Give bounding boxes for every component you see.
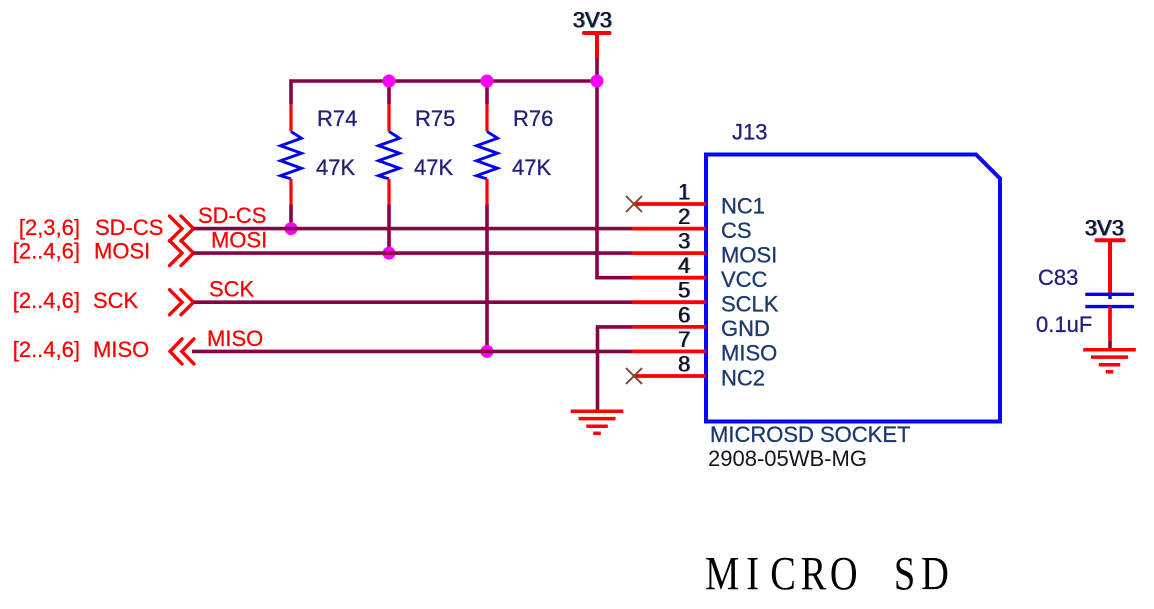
pin 5 number — [678, 278, 691, 303]
wire: R75 bottom to MOSI net — [387, 205, 391, 254]
pin 3 stub — [632, 251, 706, 255]
power 3V3 (C83) label — [1084, 216, 1124, 241]
connector J13 box — [706, 155, 1000, 422]
pin 4 stub — [632, 276, 706, 280]
pin 8 stub — [634, 374, 706, 378]
pin 2 name CS — [721, 218, 752, 243]
junction R74/SD-CS — [285, 222, 298, 235]
pin 7 name MISO — [721, 341, 777, 366]
pin 5 name SCLK — [721, 292, 779, 317]
resistor R75 symbol — [379, 104, 400, 205]
ground symbol under C83 — [1083, 350, 1136, 372]
svg-text:2: 2 — [678, 204, 690, 229]
svg-text:SCK: SCK — [209, 277, 255, 302]
port SCK name text — [93, 288, 139, 313]
svg-text:8: 8 — [678, 352, 690, 377]
pin 4 name VCC — [721, 267, 768, 292]
wire: R75 top tap — [387, 81, 391, 104]
label MICROSD SOCKET — [710, 422, 910, 447]
port MOSI sheet refs text — [13, 239, 80, 264]
svg-text:SCLK: SCLK — [721, 292, 779, 317]
svg-text:MISO: MISO — [93, 337, 149, 362]
junction bus/R75 — [383, 75, 396, 88]
label 47K (R75) — [414, 155, 453, 180]
no-connect X pin 1 — [626, 196, 642, 212]
svg-text:4: 4 — [678, 253, 690, 278]
junction bus/R76 — [481, 75, 494, 88]
svg-text:R75: R75 — [415, 106, 455, 131]
svg-text:47K: 47K — [414, 155, 453, 180]
wire: R76 top tap — [485, 81, 489, 104]
port MOSI chevron — [170, 241, 194, 266]
pin 2 number — [678, 204, 691, 229]
svg-text:I: I — [746, 548, 759, 601]
pin 8 number — [678, 352, 691, 377]
title MICRO SD — [705, 548, 949, 601]
wire C83 to ground — [1108, 341, 1112, 349]
svg-text:MICROSD SOCKET: MICROSD SOCKET — [710, 422, 910, 447]
svg-text:S: S — [894, 548, 915, 601]
wire SCK — [194, 300, 633, 304]
no-connect X pin 8 — [626, 368, 642, 384]
svg-text:2908-05WB-MG: 2908-05WB-MG — [708, 446, 867, 471]
wire MISO — [192, 350, 632, 354]
wire SD-CS — [194, 227, 633, 231]
svg-text:[2..4,6]: [2..4,6] — [13, 288, 80, 313]
port MISO chevron (points left) — [170, 339, 194, 364]
junction R75/MOSI — [383, 247, 396, 260]
wire: 3V3 drop to VCC pin — [597, 58, 632, 278]
label 2908-05WB-MG — [708, 446, 867, 471]
svg-text:GND: GND — [721, 316, 770, 341]
pin 5 stub — [632, 300, 706, 304]
svg-text:0.1uF: 0.1uF — [1036, 312, 1092, 337]
svg-text:NC2: NC2 — [721, 365, 765, 390]
label R75 — [415, 106, 455, 131]
svg-text:MISO: MISO — [721, 341, 777, 366]
label R74 — [317, 106, 357, 131]
svg-text:7: 7 — [678, 327, 690, 352]
capacitor C83 symbol — [1085, 294, 1134, 341]
svg-text:[2..4,6]: [2..4,6] — [13, 337, 80, 362]
resistor R76 symbol — [477, 104, 498, 205]
svg-text:M: M — [705, 548, 739, 601]
power 3V3 top: symbol bar and stub — [584, 33, 610, 59]
net label SCK — [209, 277, 255, 302]
power 3V3 top: label — [572, 8, 612, 33]
port SCK sheet refs text — [13, 288, 80, 313]
port MOSI name text — [94, 239, 150, 264]
pin 7 stub — [632, 349, 706, 353]
pin 4 number — [678, 253, 691, 278]
wire: R74 bottom to SD-CS net — [289, 205, 293, 229]
svg-text:[2,3,6]: [2,3,6] — [19, 215, 80, 240]
svg-text:R76: R76 — [513, 106, 553, 131]
svg-text:C83: C83 — [1038, 265, 1078, 290]
svg-text:3: 3 — [678, 229, 690, 254]
label J13 — [732, 120, 767, 145]
svg-text:C: C — [770, 548, 796, 601]
net label MOSI — [211, 228, 267, 253]
svg-text:3V3: 3V3 — [572, 8, 611, 33]
svg-text:D: D — [921, 548, 949, 601]
pin 6 name GND — [721, 316, 770, 341]
wire MOSI — [194, 251, 633, 255]
pin 3 name MOSI — [721, 242, 777, 267]
svg-text:SD-CS: SD-CS — [95, 215, 163, 240]
svg-text:O: O — [830, 548, 858, 601]
svg-text:SCK: SCK — [93, 288, 139, 313]
pin 2 stub — [632, 227, 706, 231]
label R76 — [513, 106, 553, 131]
svg-text:MOSI: MOSI — [721, 242, 777, 267]
svg-text:MISO: MISO — [207, 326, 263, 351]
pin 1 name NC1 — [721, 193, 765, 218]
label 0.1uF — [1036, 312, 1092, 337]
svg-text:[2..4,6]: [2..4,6] — [13, 239, 80, 264]
svg-text:5: 5 — [678, 278, 690, 303]
port SD-CS name text — [95, 215, 163, 240]
ground symbol under J13 — [571, 411, 624, 433]
label C83 — [1038, 265, 1078, 290]
junction bus/3V3 drop — [591, 75, 604, 88]
pin 1 stub — [634, 202, 706, 206]
svg-text:1: 1 — [678, 180, 690, 205]
svg-text:NC1: NC1 — [721, 193, 765, 218]
label 47K (R76) — [512, 155, 551, 180]
pin 6 stub — [632, 325, 706, 329]
svg-text:R74: R74 — [317, 106, 357, 131]
pin 3 number — [678, 229, 691, 254]
port MISO sheet refs text — [13, 337, 80, 362]
port SD-CS sheet refs text — [19, 215, 80, 240]
wire: bus from R74 top across to 3V3 drop — [291, 81, 597, 104]
pin 1 number — [678, 180, 691, 205]
pin 7 number — [678, 327, 691, 352]
svg-text:47K: 47K — [512, 155, 551, 180]
wire GND from pin6 down to ground — [598, 327, 633, 410]
svg-text:CS: CS — [721, 218, 752, 243]
svg-text:3V3: 3V3 — [1084, 216, 1123, 241]
resistor R74 symbol — [281, 104, 302, 205]
net label SD-CS — [198, 203, 266, 228]
junction R76/MISO — [481, 345, 494, 358]
port SCK chevron — [170, 290, 194, 315]
wire: R76 bottom to MISO net — [485, 205, 489, 352]
svg-text:SD-CS: SD-CS — [198, 203, 266, 228]
svg-text:VCC: VCC — [721, 267, 768, 292]
label 47K (R74) — [316, 155, 355, 180]
svg-text:47K: 47K — [316, 155, 355, 180]
power 3V3 (C83) symbol bar and stub — [1096, 240, 1123, 295]
pin 8 name NC2 — [721, 365, 765, 390]
svg-text:MOSI: MOSI — [211, 228, 267, 253]
svg-text:MOSI: MOSI — [94, 239, 150, 264]
svg-text:J13: J13 — [732, 120, 767, 145]
svg-text:R: R — [801, 548, 827, 601]
port MISO name text — [93, 337, 149, 362]
svg-text:6: 6 — [678, 302, 690, 327]
pin 6 number — [678, 302, 691, 327]
port SD-CS chevron — [170, 216, 194, 241]
net label MISO — [207, 326, 263, 351]
